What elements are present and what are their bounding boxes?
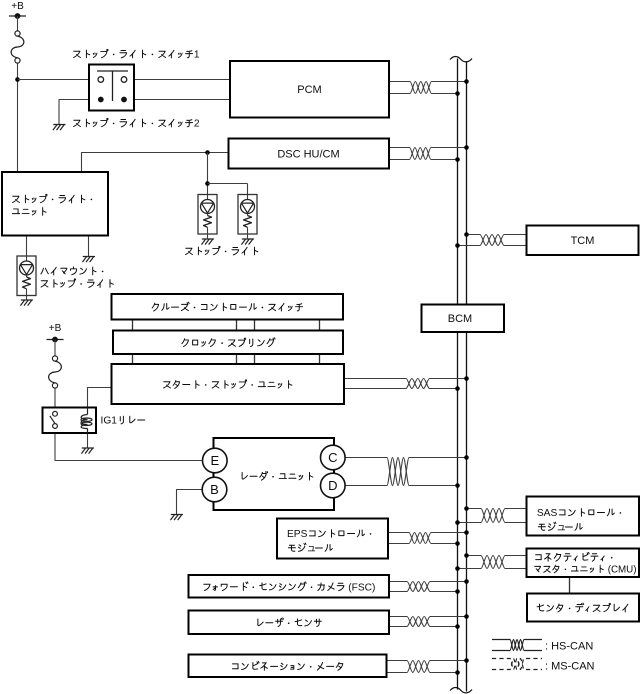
- wire clock spring to start-stop unit connectors: [132, 354, 134, 364]
- ground (stop light unit): [83, 257, 95, 262]
- svg-text:(CMU): (CMU): [608, 564, 637, 575]
- wire +B to fuse: [17, 16, 19, 31]
- legend MS-CAN symbol: [492, 659, 542, 670]
- label stop light switch 1: [74, 51, 81, 57]
- wire twisted pair radar unit C/D to HS-CAN bus: [345, 458, 467, 486]
- label stop light switch 2: [74, 120, 81, 126]
- lamp high-mount stop light: [17, 256, 36, 296]
- stop light unit box: [2, 172, 108, 236]
- forward sensing camera box: [189, 575, 390, 598]
- legend HS-CAN symbol: [492, 640, 542, 651]
- IG1 relay box: [43, 408, 97, 434]
- EPS control module box: [277, 519, 388, 559]
- relay contact (IG1): [50, 411, 58, 428]
- ground (IG1 relay): [82, 448, 94, 453]
- radar unit box: [214, 438, 335, 510]
- label cruise control switch: [152, 303, 158, 311]
- svg-text:E: E: [210, 453, 219, 468]
- lamp left stop light module: [198, 195, 217, 235]
- wire stop light switch 2 to ground: [59, 100, 98, 125]
- label center display: [537, 604, 544, 611]
- wire twisted pair laser sensor to HS-CAN bus: [389, 617, 467, 627]
- ground (high-mount stop light): [21, 300, 33, 305]
- center display box: [527, 594, 639, 622]
- ground (radar unit B): [171, 515, 183, 520]
- label laser sensor: [258, 619, 263, 626]
- bus bottom break: [450, 688, 472, 693]
- wire bus right line: [466, 61, 468, 692]
- switch SW2 contacts (stop light switch 2): [98, 97, 104, 103]
- wire cruise switch to clock spring connectors: [132, 320, 134, 331]
- node junction +B / switch feed: [15, 77, 20, 82]
- wire IG1 relay switch to radar terminal E: [55, 433, 203, 461]
- wire stop light switch 2 output to PCM: [127, 99, 230, 101]
- TCM box: [527, 226, 639, 256]
- svg-text:PCM: PCM: [297, 84, 321, 96]
- fusible link F2: [49, 356, 62, 388]
- svg-text:+B: +B: [11, 1, 24, 12]
- svg-text:(FSC): (FSC): [348, 582, 375, 593]
- label start-stop unit: [164, 382, 171, 388]
- wire twisted pair HS-CAN bus to connectivity master unit: [467, 556, 527, 569]
- wire twisted pair HS-CAN bus to TCM: [467, 235, 527, 246]
- wire feed to stop light switch: [18, 79, 99, 81]
- svg-text:ュ: ュ: [556, 523, 566, 534]
- relay coil (IG1): [81, 408, 92, 434]
- svg-text:C: C: [328, 450, 337, 465]
- lamp right stop light module: [238, 195, 257, 235]
- wire twisted pair DSC HU/CM to HS-CAN bus: [389, 148, 467, 160]
- wire twisted pair PCM to HS-CAN bus: [389, 82, 467, 94]
- fusible link F1: [11, 31, 24, 63]
- node junction stop light feed: [205, 150, 210, 155]
- connectivity master unit box: [527, 549, 640, 578]
- label stop light unit: [13, 196, 20, 202]
- wire stop light switch 1 output to PCM: [127, 79, 230, 81]
- label stop lights: [186, 248, 193, 254]
- wire drop to stop lights: [207, 153, 209, 200]
- wire twisted pair start-stop unit to HS-CAN bus: [344, 379, 467, 389]
- wire twisted pair combination meter to HS-CAN bus: [387, 661, 467, 673]
- svg-text:D: D: [328, 478, 337, 493]
- radar unit terminals E/B/C/D: [203, 448, 228, 473]
- wire CMU to center display: [569, 577, 571, 594]
- svg-text:SAS: SAS: [537, 508, 558, 519]
- switch SW1 contacts (stop light switch 1): [97, 71, 128, 101]
- svg-text:: MS-CAN: : MS-CAN: [545, 660, 595, 672]
- wire twisted pair HS-CAN bus to SAS control module: [467, 509, 527, 523]
- label combination meter: [233, 664, 239, 669]
- laser sensor box: [189, 611, 390, 635]
- wire radar terminal B to ground: [177, 490, 203, 515]
- wire across to right stop light: [208, 183, 248, 185]
- svg-text:B: B: [210, 482, 219, 497]
- label clock spring: [182, 339, 188, 347]
- label radar unit: [242, 473, 247, 480]
- wire +B to fuse 2: [54, 340, 56, 357]
- label connectivity master unit: [536, 555, 542, 560]
- wire stop light unit to ground: [88, 236, 90, 257]
- wire twisted pair EPS control module to HS-CAN bus: [388, 533, 467, 544]
- svg-text:1: 1: [194, 50, 200, 61]
- wire stop light unit to high-mount lamp: [26, 236, 28, 262]
- wire IG1 relay coil to ground: [87, 433, 89, 448]
- ground (right stop light): [242, 239, 254, 244]
- start-stop unit box: [112, 364, 345, 404]
- svg-text:DSC HU/CM: DSC HU/CM: [277, 148, 339, 160]
- wire twisted pair FSC to HS-CAN bus: [389, 582, 467, 592]
- wire IG1 relay to start-stop unit: [88, 388, 112, 408]
- svg-text:: HS-CAN: : HS-CAN: [545, 641, 593, 653]
- wire DSC HU/CM to stop light unit: [82, 153, 229, 173]
- svg-text:+B: +B: [49, 323, 62, 334]
- combination meter box: [189, 655, 387, 678]
- svg-text:2: 2: [194, 119, 200, 130]
- ground (stop light switch): [53, 125, 65, 130]
- bus top break: [450, 57, 472, 62]
- wire fuse 2 to IG1 relay: [54, 388, 56, 408]
- cruise control switch box: [112, 294, 344, 320]
- switch box (stop light switches): [89, 65, 134, 111]
- svg-text:ュ: ュ: [306, 544, 316, 555]
- label forward sensing camera: [204, 584, 210, 590]
- ground (left stop light): [202, 239, 214, 244]
- BCM box (straddles bus): [422, 305, 505, 333]
- svg-text:EPS: EPS: [287, 529, 308, 540]
- PCM box: [230, 61, 389, 118]
- DSC HU/CM box: [229, 139, 390, 169]
- wire +B vertical to stop light unit: [17, 63, 19, 172]
- svg-text:IG1: IG1: [101, 416, 118, 427]
- clock spring box: [113, 331, 343, 355]
- SAS control module box: [527, 497, 640, 536]
- svg-text:BCM: BCM: [448, 313, 472, 325]
- wire bus left line: [457, 59, 459, 690]
- svg-text:TCM: TCM: [571, 235, 595, 247]
- label high-mount stop light: [41, 268, 48, 274]
